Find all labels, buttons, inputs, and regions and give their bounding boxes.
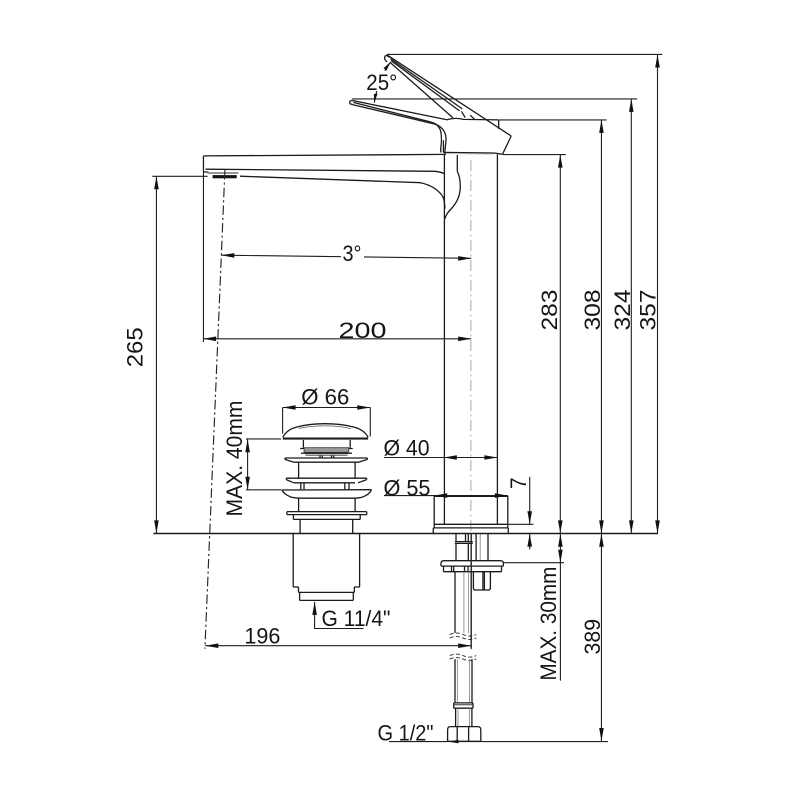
svg-text:Ø 66: Ø 66 bbox=[301, 384, 349, 409]
svg-text:324: 324 bbox=[610, 290, 635, 331]
svg-text:265: 265 bbox=[123, 327, 148, 367]
svg-text:3°: 3° bbox=[343, 241, 362, 266]
svg-text:7: 7 bbox=[506, 477, 531, 489]
svg-text:200: 200 bbox=[339, 318, 387, 343]
svg-text:G 11/4": G 11/4" bbox=[322, 606, 391, 631]
svg-text:MAX. 30mm: MAX. 30mm bbox=[536, 567, 561, 681]
svg-text:MAX. 40mm: MAX. 40mm bbox=[222, 401, 247, 517]
svg-text:389: 389 bbox=[580, 619, 605, 655]
svg-text:Ø 40: Ø 40 bbox=[384, 436, 430, 461]
svg-text:357: 357 bbox=[636, 290, 661, 331]
svg-text:25°: 25° bbox=[366, 70, 397, 95]
svg-text:196: 196 bbox=[244, 624, 280, 649]
svg-text:283: 283 bbox=[537, 290, 562, 331]
svg-text:308: 308 bbox=[580, 290, 605, 331]
svg-text:G 1/2": G 1/2" bbox=[378, 721, 434, 746]
svg-text:Ø 55: Ø 55 bbox=[384, 476, 431, 501]
